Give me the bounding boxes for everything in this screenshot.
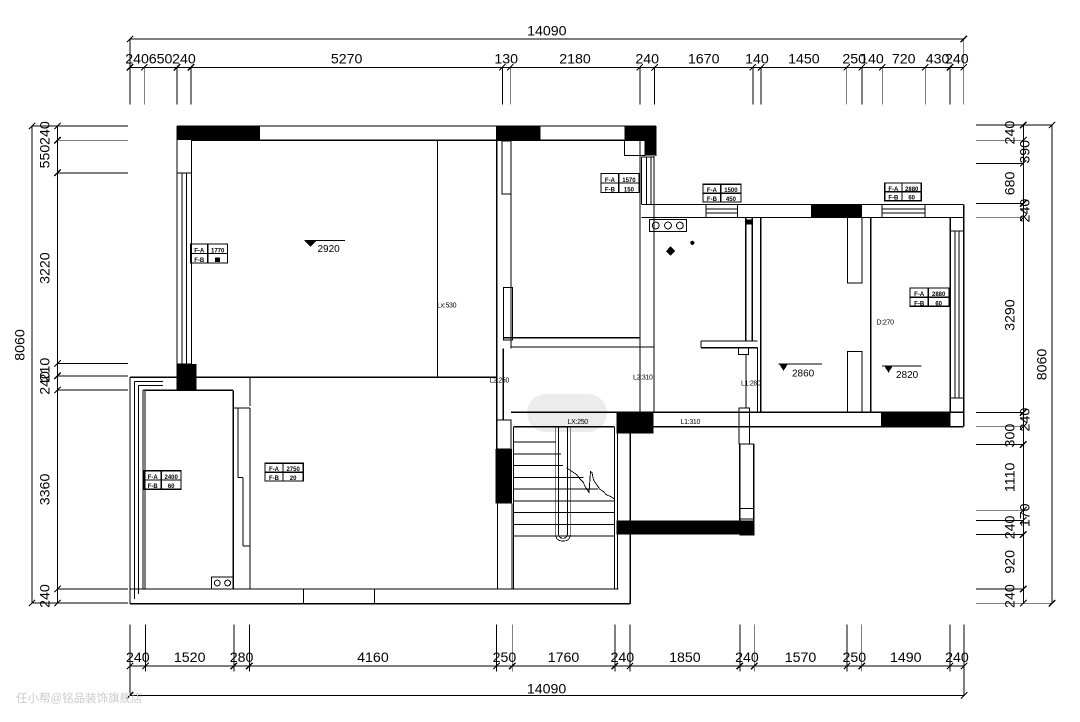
wall stub middle lower: [504, 287, 513, 340]
wall living/middle room west face: [496, 140, 498, 449]
svg-text:240: 240: [945, 52, 969, 68]
svg-text:240: 240: [38, 371, 54, 395]
washing machine box: [212, 577, 234, 589]
kitchen east wall: [745, 218, 747, 342]
stair top interior line: [514, 426, 615, 428]
svg-text:60: 60: [935, 301, 942, 307]
balcony east wall upper chunk: [232, 390, 234, 589]
svg-text:240: 240: [126, 650, 150, 666]
interior line below living room: [130, 376, 497, 378]
top wall inner line: [192, 139, 657, 141]
svg-text:2860: 2860: [792, 369, 815, 380]
svg-text:390: 390: [1018, 140, 1034, 164]
stair east wall: [617, 433, 619, 589]
svg-text:5270: 5270: [331, 52, 363, 68]
svg-text:L1:310: L1:310: [681, 419, 701, 426]
svg-text:F-A: F-A: [888, 187, 899, 193]
table kitchen window: [703, 184, 741, 202]
svg-text:920: 920: [1003, 550, 1019, 574]
wall stub white under corner column: [624, 140, 644, 155]
svg-text:F-B: F-B: [888, 196, 899, 202]
top overall dimension 14090: [130, 38, 964, 40]
top dimension chain: [130, 66, 964, 68]
level mark bedroom2 2820: [882, 365, 922, 367]
window top wall kitchen: [706, 208, 738, 210]
toilet door wall east lines: [739, 444, 741, 520]
kitchen small dot: [690, 241, 694, 245]
column top-corner black L: [624, 126, 656, 140]
toilet bottom black band: [617, 521, 740, 535]
table living south: [265, 463, 303, 481]
table right window: [885, 183, 922, 201]
kitchen door jamb tab: [739, 348, 749, 355]
svg-text:20: 20: [290, 476, 297, 482]
toilet door jamb rect: [739, 408, 749, 444]
svg-text:F-A: F-A: [269, 467, 280, 473]
svg-text:F-B: F-B: [269, 476, 280, 482]
bedroom divider wall stub lower: [848, 352, 862, 413]
stair treads: [514, 441, 556, 443]
svg-text:F-A: F-A: [605, 178, 616, 184]
svg-text:LX:250: LX:250: [568, 419, 589, 426]
svg-text:240: 240: [1003, 515, 1019, 539]
svg-text:2880: 2880: [932, 292, 946, 298]
svg-text:3220: 3220: [38, 252, 54, 284]
right section top wall outer: [642, 204, 964, 206]
top wall right face: [655, 126, 657, 156]
balcony top inner line: [145, 389, 233, 391]
wall middle/kitchen east face: [653, 156, 655, 412]
level mark living room 2920: [305, 239, 346, 241]
svg-text:2920: 2920: [318, 244, 341, 255]
svg-text:240: 240: [1003, 584, 1019, 608]
right section top wall inner: [642, 217, 964, 219]
stair left column black: [496, 449, 512, 503]
top wall outer line: [177, 125, 656, 127]
svg-text:250: 250: [842, 650, 866, 666]
window east wall: [954, 231, 956, 398]
column hall black: [617, 412, 654, 433]
hall west door frame line: [757, 348, 759, 413]
stair break line: [567, 468, 616, 500]
svg-text:240: 240: [945, 650, 969, 666]
stair west wall below column: [497, 503, 499, 589]
svg-text:240: 240: [38, 584, 54, 608]
svg-text:1490: 1490: [890, 650, 922, 666]
gray watermark blob near stair: [527, 394, 607, 432]
svg-text:1110: 1110: [1003, 463, 1019, 493]
svg-text:1450: 1450: [788, 52, 820, 68]
stair left stub white: [497, 420, 511, 449]
svg-text:1770: 1770: [211, 248, 225, 254]
svg-text:60: 60: [168, 484, 175, 490]
svg-text:L2:310: L2:310: [633, 375, 653, 382]
svg-text:680: 680: [1003, 171, 1019, 195]
bottom wall inner line: [130, 588, 618, 590]
svg-text:Lx:530: Lx:530: [437, 303, 457, 310]
svg-text:2400: 2400: [165, 475, 179, 481]
hall bottom wall top line: [511, 411, 964, 413]
column left black below window: [177, 364, 197, 390]
svg-text:150: 150: [624, 187, 635, 193]
svg-text:250: 250: [493, 650, 517, 666]
svg-text:240: 240: [1018, 199, 1034, 223]
window balcony east jog: [238, 476, 243, 478]
bedroom1 west wall face: [760, 218, 762, 413]
svg-text:2880: 2880: [905, 187, 919, 193]
balcony interior west line: [144, 390, 146, 589]
svg-text:8060: 8060: [1035, 349, 1051, 381]
column right-top black: [811, 205, 862, 218]
svg-text:F-B: F-B: [148, 484, 159, 490]
svg-text:280: 280: [230, 650, 254, 666]
wall stub middle top: [502, 141, 511, 194]
svg-text:240: 240: [38, 121, 54, 145]
hall bottom wall bottom line: [653, 426, 963, 428]
svg-text:2180: 2180: [559, 52, 591, 68]
svg-text:240: 240: [125, 52, 149, 68]
window living-room west wall: [176, 173, 178, 364]
bottom overall dimension 14090: [130, 694, 964, 696]
stair rail inner: [558, 428, 567, 539]
left wall of living room upper part: [176, 126, 178, 173]
svg-text:240: 240: [1003, 121, 1019, 145]
svg-text:720: 720: [892, 52, 916, 68]
kitchen bottom wall: [701, 340, 758, 342]
svg-text:140: 140: [745, 52, 769, 68]
kitchen floor drain diamond: [666, 246, 675, 256]
svg-text:650: 650: [149, 52, 173, 68]
svg-text:L1:280: L1:280: [741, 381, 761, 388]
bottom dimension chain: [130, 665, 964, 667]
table bedroom2: [910, 288, 949, 306]
wall living/middle room east face upper: [510, 140, 512, 348]
svg-text:1500: 1500: [724, 188, 738, 194]
svg-text:1570: 1570: [622, 178, 636, 184]
svg-text:F-B: F-B: [605, 187, 616, 193]
svg-text:1850: 1850: [669, 650, 701, 666]
svg-text:1520: 1520: [174, 650, 206, 666]
left dimension chain: [57, 126, 59, 603]
svg-text:F-B: F-B: [194, 258, 205, 264]
svg-text:F-A: F-A: [707, 188, 718, 194]
east wall exterior face: [963, 205, 965, 427]
svg-text:4160: 4160: [357, 650, 389, 666]
window top wall right room: [882, 208, 925, 210]
svg-text:240: 240: [1018, 408, 1034, 432]
east wall interior face: [949, 218, 951, 413]
column top-left black: [177, 126, 260, 140]
svg-text:L2:250: L2:250: [490, 378, 510, 385]
bottom wall outer line: [130, 603, 630, 605]
svg-text:14090: 14090: [527, 24, 567, 40]
svg-text:D:270: D:270: [877, 320, 895, 327]
kitchen right wall marker black: [747, 219, 752, 224]
svg-text:8060: 8060: [13, 329, 29, 361]
right dimension chain: [1022, 125, 1024, 603]
svg-text:60: 60: [908, 196, 915, 202]
svg-text:240: 240: [172, 52, 196, 68]
svg-text:240: 240: [635, 52, 659, 68]
column bedroom bottom black: [881, 412, 950, 426]
bedroom divider wall stub upper: [848, 218, 862, 284]
level mark bedroom1 2860: [779, 363, 823, 365]
beam line Lx:530: [437, 141, 439, 376]
svg-text:F-B: F-B: [707, 197, 718, 203]
svg-text:140: 140: [860, 52, 884, 68]
svg-text:170: 170: [1018, 503, 1034, 527]
svg-text:1760: 1760: [548, 650, 580, 666]
svg-text:F-A: F-A: [194, 248, 205, 254]
svg-text:F-B: F-B: [914, 301, 925, 307]
bottom wall joint marks: [302, 589, 304, 604]
svg-text:3290: 3290: [1003, 299, 1019, 331]
wall middle/kitchen west face: [639, 140, 641, 412]
svg-text:F-A: F-A: [148, 475, 159, 481]
window middle room east wall: [641, 157, 643, 205]
svg-text:14090: 14090: [527, 681, 567, 697]
svg-text:F-A: F-A: [914, 292, 925, 298]
svg-text:1670: 1670: [688, 52, 720, 68]
svg-text:3360: 3360: [38, 474, 54, 506]
svg-text:450: 450: [726, 197, 737, 203]
wall below kitchen door edge: [745, 354, 747, 408]
bedroom divider east line: [870, 218, 872, 413]
balcony window west nested lines: [129, 377, 131, 604]
svg-text:1570: 1570: [785, 650, 817, 666]
table middle room: [601, 174, 639, 193]
svg-text:240: 240: [735, 650, 759, 666]
svg-text:2820: 2820: [896, 370, 919, 381]
table living room: [191, 244, 228, 263]
svg-text:300: 300: [1003, 424, 1019, 448]
kitchen counter with burners: [650, 220, 687, 232]
column top-middle black: [496, 126, 540, 140]
svg-text:550: 550: [38, 145, 54, 169]
svg-text:任小帮@铭品装饰旗舰店: 任小帮@铭品装饰旗舰店: [16, 691, 143, 705]
table balcony: [144, 471, 181, 489]
stair bay side edges: [513, 427, 515, 589]
right overall dimension 8060: [1051, 125, 1053, 603]
window balcony east: [237, 408, 239, 477]
middle room bottom wall: [504, 337, 641, 339]
svg-text:240: 240: [611, 650, 635, 666]
stair rail outer: [556, 428, 570, 542]
svg-text:130: 130: [494, 52, 518, 68]
left overall dimension 8060: [31, 126, 33, 603]
wall corridor east face lower: [502, 349, 504, 420]
svg-text:2750: 2750: [286, 467, 300, 473]
